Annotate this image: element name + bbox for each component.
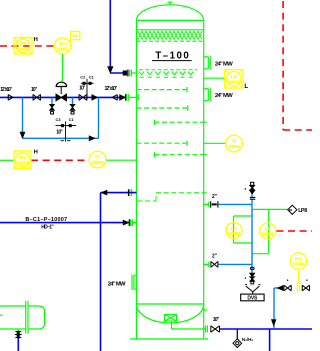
svg-text:FT: FT <box>60 41 66 47</box>
svg-text:LT: LT <box>265 226 271 232</box>
svg-text:10": 10" <box>56 129 63 135</box>
svg-text:C2: C2 <box>80 75 86 80</box>
svg-text:12"x10": 12"x10" <box>105 86 118 92</box>
svg-text:TI: TI <box>232 139 237 145</box>
svg-text:10001: 10001 <box>228 79 240 85</box>
svg-text:10012: 10012 <box>92 160 104 166</box>
svg-text:P: P <box>289 208 292 213</box>
svg-text:10012: 10012 <box>17 160 29 166</box>
svg-text:TT: TT <box>95 155 101 161</box>
svg-text:C1: C1 <box>69 117 75 122</box>
svg-text:2": 2" <box>212 194 218 200</box>
svg-text:LC: LC <box>231 226 238 232</box>
svg-text:10003: 10003 <box>228 231 240 237</box>
svg-text:L: L <box>244 83 248 90</box>
svg-text:10": 10" <box>31 87 38 93</box>
svg-text:C1: C1 <box>89 75 95 80</box>
svg-text:LP 8: LP 8 <box>298 208 307 214</box>
svg-text:HD–1": HD–1" <box>41 224 54 230</box>
svg-text:H: H <box>34 149 38 155</box>
svg-text:B–C1–P–10007: B–C1–P–10007 <box>25 217 67 223</box>
svg-text:10": 10" <box>79 86 86 92</box>
svg-text:10": 10" <box>213 317 220 323</box>
svg-text:C3: C3 <box>56 117 62 122</box>
svg-text:10004: 10004 <box>228 144 240 150</box>
svg-text:TC: TC <box>19 155 26 161</box>
svg-text:FC: FC <box>20 41 27 47</box>
svg-text:LG: LG <box>231 74 238 80</box>
svg-text:24" MW: 24" MW <box>215 93 233 99</box>
svg-text:10001: 10001 <box>17 46 29 52</box>
svg-text:N₂/H₂: N₂/H₂ <box>242 337 254 342</box>
svg-text:24" MW: 24" MW <box>108 282 126 288</box>
svg-text:12"x10": 12"x10" <box>0 87 12 93</box>
svg-text:VP: VP <box>73 34 79 39</box>
svg-text:10001: 10001 <box>57 47 69 53</box>
svg-text:PG: PG <box>295 256 302 262</box>
svg-text:2": 2" <box>212 254 218 260</box>
svg-text:10020: 10020 <box>293 262 305 268</box>
svg-text:10003: 10003 <box>262 232 274 238</box>
svg-text:T–100: T–100 <box>155 51 188 62</box>
svg-text:H: H <box>34 37 38 43</box>
svg-text:DVS: DVS <box>247 296 258 302</box>
svg-text:24" MW: 24" MW <box>215 62 233 68</box>
